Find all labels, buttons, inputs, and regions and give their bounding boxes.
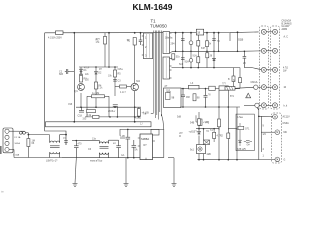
resistor R22 — [197, 119, 200, 125]
svg-text:84H: 84H — [201, 48, 206, 50]
svg-text:4.7Ω: 4.7Ω — [283, 68, 288, 70]
svg-text:L0M?1+1?: L0M?1+1? — [46, 160, 58, 163]
IC1 hybrid regulator — [140, 134, 153, 160]
svg-text:91H: 91H — [193, 56, 198, 58]
svg-text:615a: 615a — [118, 69, 124, 71]
wire stub cap c2 — [70, 71, 75, 73]
regulator sub-box — [236, 114, 254, 151]
svg-text:+?4R: +?4R — [203, 121, 209, 124]
capacitor C13 — [72, 141, 86, 158]
diode D1 zener pair — [80, 67, 83, 75]
svg-text:www.a?5co: www.a?5co — [90, 160, 103, 163]
transformer T1 secondary winding B — [163, 57, 172, 79]
capacitor C1 — [139, 40, 143, 45]
resistor R11 — [206, 41, 209, 47]
resistor R26 on rail — [93, 115, 100, 118]
svg-text:1J: 1J — [140, 124, 142, 126]
transformer T1 core — [154, 31, 162, 120]
svg-text:UL1007: UL1007 — [282, 26, 291, 28]
capacitor C8 — [181, 58, 185, 60]
wire reg out — [181, 88, 189, 90]
wire drops to bottom right — [219, 68, 237, 130]
diode D6 — [198, 132, 201, 135]
svg-text:18a 8a: 18a 8a — [165, 37, 173, 40]
wire ac mid link — [65, 141, 67, 145]
wire top rail br — [196, 128, 219, 130]
svg-text:G: G — [284, 159, 286, 161]
pin MC — [275, 130, 280, 135]
ground GND2 — [124, 158, 129, 187]
transistor Q1 — [78, 84, 85, 91]
wire left col — [198, 112, 200, 119]
ground GND1 — [73, 158, 78, 187]
svg-text:470: 470 — [78, 143, 83, 146]
svg-text:GA: GA — [121, 154, 125, 157]
svg-text:+4.(/)B: +4.(/)B — [142, 112, 150, 115]
node dots rail y117 — [109, 116, 140, 118]
wire secondary rail 3 — [172, 67, 241, 69]
pin GND — [275, 157, 280, 162]
pin AC11V — [273, 114, 278, 119]
resistor R10 — [197, 41, 200, 47]
wire primary mid rail — [70, 33, 142, 122]
wire rail L3 — [199, 88, 219, 90]
svg-text:S1B: S1B — [238, 38, 243, 42]
capacitor C6 — [181, 39, 185, 41]
diode D7 pair — [239, 140, 242, 142]
resistor R23 — [213, 132, 216, 138]
resistor R8 — [87, 110, 96, 113]
svg-text:C98: C98 — [68, 104, 73, 106]
capacitor C7 — [212, 39, 216, 41]
capacitor C9 — [243, 51, 247, 67]
svg-text:AWM: AWM — [282, 28, 288, 31]
resistor R25 — [238, 126, 244, 129]
svg-text:S01A: S01A — [15, 142, 21, 145]
optocoupler PC1 — [197, 145, 206, 154]
diode D4 — [189, 59, 193, 63]
connector CN4A housing — [3, 128, 13, 153]
resistor R20 — [239, 78, 242, 83]
svg-text:B 24AWG: B 24AWG — [282, 22, 292, 25]
wire rail3 to R20 — [239, 68, 241, 78]
resistor R2 — [133, 38, 136, 46]
svg-text:AC11V: AC11V — [283, 116, 291, 119]
wire secondary rail 2 — [172, 50, 238, 52]
wire th1 to cn — [235, 87, 253, 88]
node dots secondary — [175, 31, 239, 68]
pin row5 — [255, 103, 259, 107]
wire rail y117 drops — [87, 107, 135, 117]
capacitor C10 — [181, 89, 185, 107]
capacitor C3 — [113, 80, 117, 82]
wire right primary drop — [73, 33, 75, 122]
wire secondary drops — [176, 32, 238, 67]
svg-text:B?1: B?1 — [230, 96, 235, 98]
wire ac top — [25, 133, 49, 141]
relay RY1 on rail — [196, 29, 203, 35]
connector CN2A dashed housing — [271, 26, 280, 109]
resistor R7 — [92, 95, 105, 98]
svg-text:4.315A 250V: 4.315A 250V — [48, 37, 62, 40]
capacitor C17 — [132, 140, 137, 158]
wire drop q2 — [134, 45, 136, 84]
labels CN3A — [283, 116, 291, 162]
wire drop q1 — [80, 93, 82, 107]
transformer T1 primary winding — [142, 33, 153, 59]
capacitor C11 — [204, 89, 208, 107]
resistor R1 — [103, 37, 106, 45]
wire bottom mid rail — [62, 157, 164, 159]
transistor Q2 — [131, 83, 138, 90]
wire ac bottom — [9, 150, 62, 158]
capacitor C16 — [126, 129, 131, 157]
misc small value labels — [37, 39, 235, 157]
svg-text:CN3A: CN3A — [283, 122, 290, 125]
svg-text:10P: 10P — [167, 92, 172, 94]
svg-text:4dB: 4dB — [207, 153, 212, 156]
wire drop x96 — [95, 67, 97, 107]
small box X2 — [204, 140, 210, 145]
wire bottom rail br — [197, 159, 275, 161]
svg-text:4.7R2: 4.7R2 — [217, 135, 224, 138]
node dots primary — [73, 32, 141, 108]
svg-text:S6d: S6d — [136, 81, 141, 83]
wire lower rail y107 — [180, 106, 240, 108]
svg-text:5A: 5A — [135, 149, 138, 152]
resistor R17 — [232, 76, 235, 82]
diode D3 — [189, 41, 193, 45]
wire r19 links — [218, 127, 220, 160]
inductor L2 choke — [86, 140, 119, 158]
svg-text:+c815'?: +c815'? — [189, 131, 198, 134]
svg-text:294: 294 — [171, 43, 176, 46]
diode D2 — [95, 72, 98, 75]
wire drop x109 — [108, 33, 110, 67]
svg-text:tm: tm — [1, 190, 4, 194]
svg-text:9t: 9t — [209, 43, 211, 46]
resistor R3 — [79, 76, 82, 83]
resistor R16 — [193, 94, 196, 101]
pin row3 — [261, 67, 266, 72]
inductor L3 — [189, 85, 200, 89]
svg-text:TUM050: TUM050 — [150, 24, 167, 29]
resistor R19 — [218, 119, 221, 127]
pin row1 — [261, 29, 266, 34]
svg-text:CN1A: CN1A — [251, 80, 258, 84]
resistor R24 — [227, 133, 230, 139]
capacitor C2 — [65, 69, 70, 74]
transformer T1 secondary winding A — [163, 32, 172, 54]
component inside enclosure — [151, 129, 159, 135]
wire primary rail y117 — [85, 116, 141, 118]
transformer T1 lead-out wires — [151, 113, 164, 129]
capacitor C5 — [113, 105, 118, 107]
primary loop wires — [45, 32, 259, 135]
svg-text:91H: 91H — [185, 61, 190, 64]
svg-text:CN1A/2A: CN1A/2A — [282, 20, 292, 23]
svg-text:F1 1A: F1 1A — [15, 136, 21, 139]
inductor L1 common mode choke — [50, 135, 67, 158]
bracket lead — [196, 115, 198, 122]
svg-text:A, C: A, C — [284, 36, 289, 39]
heatsink bar — [46, 122, 152, 127]
resistor R12 — [172, 54, 175, 60]
resistor R4 — [94, 82, 97, 89]
pin numbers — [263, 126, 267, 158]
resistor R6 — [120, 85, 127, 88]
svg-text:MC: MC — [284, 132, 288, 134]
connector pins CN1A/CN2A — [254, 29, 278, 108]
node dots bottom right — [198, 116, 259, 161]
resistor R21 — [27, 139, 30, 147]
capacitor C4 — [79, 107, 84, 112]
diode D5 — [213, 58, 216, 60]
svg-text:M: M — [179, 136, 181, 138]
ground GND3 — [168, 158, 177, 187]
resistor R18 — [199, 119, 203, 126]
wire right bus — [257, 108, 275, 160]
svg-text:G?1: G?1 — [245, 128, 250, 130]
svg-text:9c1: 9c1 — [190, 149, 195, 152]
svg-text:S1B8A: S1B8A — [141, 137, 149, 141]
wire drop x140 — [140, 33, 142, 40]
enclosure switching box — [120, 129, 164, 157]
labels right edge — [282, 20, 292, 108]
connector CN4A pins — [5, 129, 9, 152]
node dots 5v rail — [182, 88, 229, 108]
thermistor TH1 — [225, 87, 235, 91]
warning triangle — [246, 93, 251, 98]
svg-text:A78.LV5: A78.LV5 — [237, 148, 246, 151]
regulator box +5V — [164, 88, 182, 108]
svg-text:26.8Lv: 26.8Lv — [108, 110, 116, 113]
capacitor C19 — [246, 141, 250, 143]
optocoupler PC1 wires — [196, 112, 275, 160]
wire inside regulator box — [240, 123, 252, 146]
capacitor C12 — [64, 135, 68, 145]
capacitor C15 — [116, 140, 121, 158]
pin row4 — [254, 85, 258, 89]
svg-text:54B: 54B — [190, 122, 195, 125]
connector CN3A dashed housing — [272, 113, 282, 163]
wire top primary rail — [45, 31, 259, 34]
wire left primary drop — [45, 33, 66, 135]
svg-text:4.1L?: 4.1L? — [120, 92, 126, 94]
pin row2 — [261, 48, 266, 53]
resistor R13 — [197, 57, 200, 63]
resistor R15 on rail — [219, 86, 228, 90]
wire primary bottom rail — [76, 106, 141, 108]
wire drop x105 — [104, 33, 106, 37]
connector CN1A dashed housing — [260, 26, 269, 109]
wire mc feed — [236, 129, 238, 160]
resistor R14 — [206, 53, 209, 58]
svg-text:683: 683 — [59, 73, 64, 76]
svg-text:2.4k: 2.4k — [87, 114, 92, 117]
pin cross marks — [263, 31, 276, 107]
fuse F2 holder — [9, 131, 25, 134]
fuse F1 — [56, 31, 64, 35]
resistor R9 — [137, 109, 140, 117]
wire drop x115 — [114, 67, 116, 96]
svg-text:1u 18k: 1u 18k — [92, 92, 100, 95]
svg-text:KLM-1649: KLM-1649 — [133, 2, 173, 12]
svg-text:C18: C18 — [78, 115, 83, 118]
svg-text:L?aa: L?aa — [238, 117, 244, 119]
resistor R5 — [113, 70, 116, 77]
resistor R27 on rail — [209, 86, 215, 90]
wire row links — [238, 32, 273, 106]
node bar-top — [73, 121, 75, 123]
wire mid col — [203, 129, 205, 140]
labels CN4A — [13, 136, 21, 157]
svg-text:5d8: 5d8 — [177, 116, 182, 119]
svg-text:47uF: 47uF — [84, 68, 90, 70]
svg-text:+L(1)1: +L(1)1 — [134, 117, 142, 120]
svg-text:7B: 7B — [217, 41, 220, 43]
svg-text:L1B: L1B — [121, 135, 126, 138]
